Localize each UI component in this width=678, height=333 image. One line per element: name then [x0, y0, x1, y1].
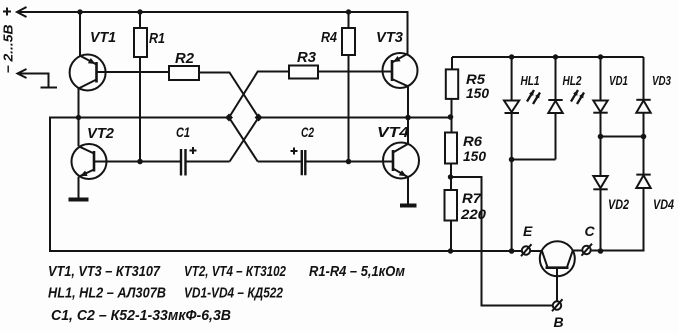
svg-text:220: 220 — [460, 206, 486, 222]
svg-text:HL1: HL1 — [521, 74, 540, 88]
svg-text:VD4: VD4 — [653, 196, 674, 212]
svg-text:R7: R7 — [462, 190, 482, 206]
svg-text:B: B — [554, 314, 564, 330]
svg-text:HL2: HL2 — [563, 74, 582, 88]
svg-text:VT2: VT2 — [87, 125, 115, 142]
svg-text:R1-R4 – 5,1кОм: R1-R4 – 5,1кОм — [309, 264, 405, 280]
svg-text:E: E — [523, 223, 533, 239]
svg-text:C1, C2 – К52-1-33мкФ-6,3В: C1, C2 – К52-1-33мкФ-6,3В — [51, 308, 231, 324]
svg-text:R4: R4 — [321, 29, 338, 46]
svg-text:R3: R3 — [297, 49, 317, 66]
svg-text:R6: R6 — [463, 133, 482, 149]
svg-text:VD2: VD2 — [608, 196, 629, 212]
svg-text:R1: R1 — [149, 30, 165, 47]
svg-text:150: 150 — [463, 148, 486, 164]
svg-text:VT2, VT4 – КТ3102: VT2, VT4 – КТ3102 — [184, 264, 286, 280]
svg-text:VD1: VD1 — [609, 74, 628, 88]
svg-text:VT1, VT3 – КТ3107: VT1, VT3 – КТ3107 — [48, 264, 161, 280]
svg-text:R2: R2 — [175, 50, 195, 67]
svg-text:C2: C2 — [301, 124, 314, 140]
svg-text:VD1-VD4 – КД522: VD1-VD4 – КД522 — [184, 286, 283, 302]
svg-text:VD3: VD3 — [652, 74, 671, 88]
svg-text:C1: C1 — [176, 124, 190, 140]
svg-text:VT3: VT3 — [376, 29, 404, 46]
svg-text:VT4: VT4 — [377, 124, 410, 141]
svg-text:C: C — [585, 223, 596, 239]
svg-text:− 2...5В: − 2...5В — [1, 25, 16, 74]
svg-text:VT1: VT1 — [90, 29, 116, 46]
svg-text:150: 150 — [466, 85, 489, 101]
svg-text:HL1, HL2 – АЛ307В: HL1, HL2 – АЛ307В — [48, 286, 166, 302]
